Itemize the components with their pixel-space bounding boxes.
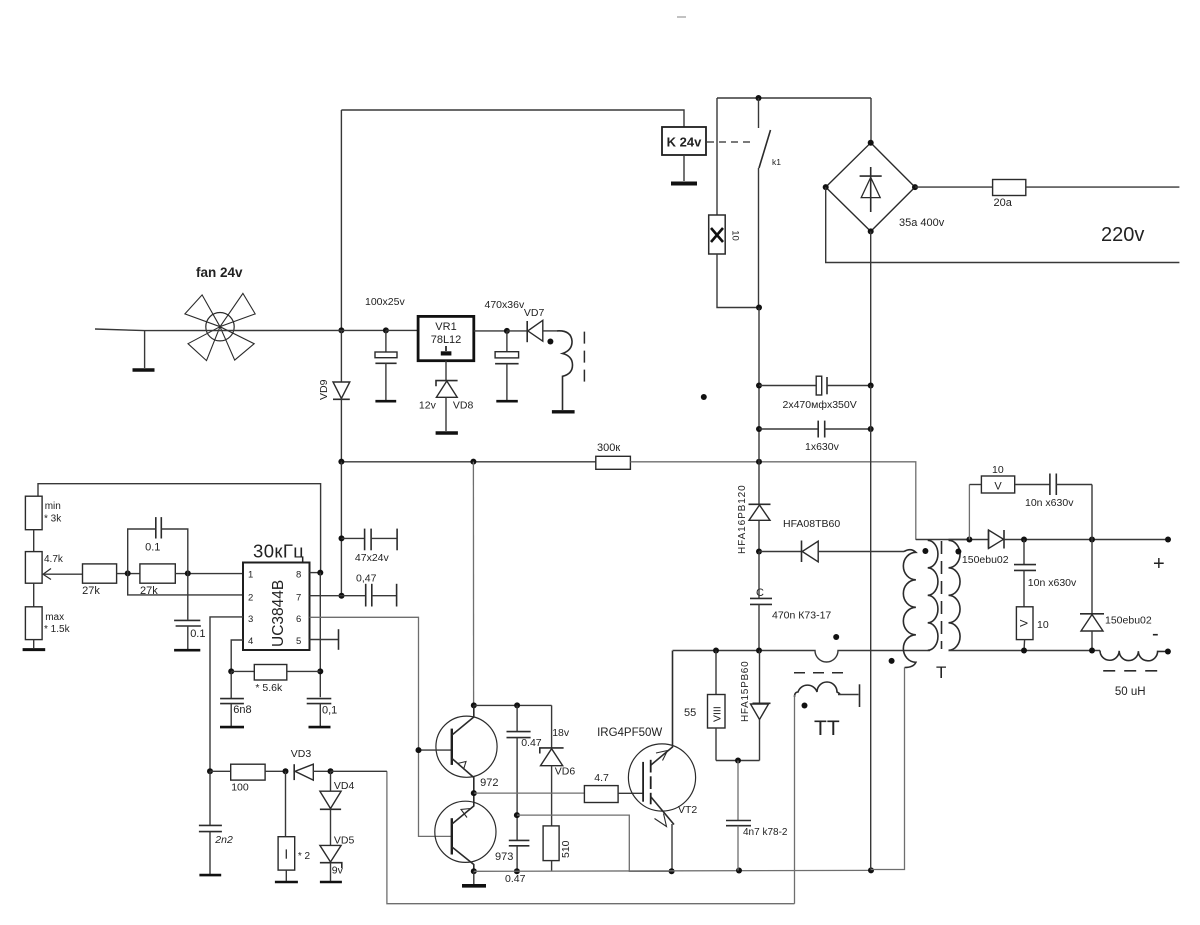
resistor min *3k <box>25 496 62 530</box>
svg-text:max: max <box>45 612 64 623</box>
fan blade upper-left <box>185 295 220 327</box>
wire node line y=650 with TT hop <box>673 651 931 663</box>
node junction (231.2,671.4) <box>228 668 234 674</box>
svg-text:35a 400v: 35a 400v <box>899 217 945 229</box>
potentiometer 4.7k <box>25 552 82 584</box>
svg-text:10: 10 <box>730 230 741 241</box>
zener VD6 <box>540 705 576 826</box>
diode 150ebu02 clamp <box>1080 540 1104 651</box>
node junction (516.9,871.3) <box>514 868 520 874</box>
diode VD9 <box>333 330 350 461</box>
svg-text:27k: 27k <box>82 585 100 597</box>
svg-text:10n x630v: 10n x630v <box>1028 577 1077 589</box>
diode VD3 <box>294 764 330 780</box>
svg-text:5: 5 <box>296 636 301 647</box>
node junction (759,551.5) <box>756 549 762 555</box>
wire fan ground drop <box>144 331 146 368</box>
capacitor 47x24v <box>342 529 398 564</box>
node junction (1024,539.5) <box>1021 537 1027 543</box>
node junction rail x=473 <box>470 459 476 465</box>
wire sense rail y=904 <box>387 771 795 903</box>
node junction (759,98) <box>756 95 762 101</box>
fan blade lower-left <box>188 327 220 361</box>
svg-text:510: 510 <box>560 840 572 858</box>
wire AC return 220v <box>826 187 1180 262</box>
svg-text:HFA16PB120: HFA16PB120 <box>737 484 748 554</box>
node junction (127.7,573.4) <box>125 570 131 576</box>
node junction (418.5,750.1) <box>416 747 422 753</box>
node terminal plus (1168,539.5) <box>1165 537 1171 543</box>
wire vcc drop x=341 <box>340 462 342 596</box>
ground (driver) <box>462 884 486 888</box>
ground (aux winding) <box>552 410 575 413</box>
svg-text:K 24v: K 24v <box>667 135 702 150</box>
wire fan rail left <box>95 329 386 331</box>
svg-text:VT2: VT2 <box>678 804 697 816</box>
svg-text:972: 972 <box>480 777 498 789</box>
wire vcc riser x=341 top <box>340 110 342 330</box>
label 220v <box>1101 224 1144 246</box>
svg-text:0,1: 0,1 <box>322 705 337 717</box>
resistor 100 <box>210 764 286 793</box>
dashed actuation link relay to k1 <box>707 141 754 143</box>
resistor V 10 snubber top <box>969 476 1014 493</box>
svg-text:10n x630v: 10n x630v <box>1025 497 1074 509</box>
svg-text:0.1: 0.1 <box>145 541 160 553</box>
node junction (341.5,595.7) pin7 <box>339 593 345 599</box>
svg-text:9v: 9v <box>332 865 344 877</box>
transformer T winding B inner <box>928 540 938 650</box>
wire x=717 top rail down to thermistor <box>716 98 718 215</box>
svg-text:0.47: 0.47 <box>521 737 542 749</box>
svg-text:UC3844B: UC3844B <box>270 580 287 647</box>
label 150ebu02 lower <box>1105 615 1152 627</box>
node junction rail x=341 <box>338 459 344 465</box>
IC U1 UC3844B <box>243 563 310 651</box>
resistor 27k first <box>82 564 140 597</box>
wire vref top loop <box>38 484 321 573</box>
zener VD8 12v <box>419 361 474 431</box>
svg-text:100: 100 <box>231 782 249 794</box>
svg-text:VD7: VD7 <box>524 307 545 319</box>
capacitor 2n2 <box>199 771 233 875</box>
node junction rail x=759 <box>756 459 762 465</box>
node junction (330.5,771.3) <box>328 768 334 774</box>
wire supply rail y=462 left <box>341 461 595 463</box>
transformer T secondary winding <box>949 540 961 650</box>
svg-text:* 3k: * 3k <box>44 514 62 525</box>
wire y650 left drop x=672 <box>672 650 674 653</box>
inductor 50uH <box>1100 651 1168 661</box>
svg-text:C: C <box>756 587 764 599</box>
svg-text:HFA08TB60: HFA08TB60 <box>783 518 840 530</box>
wire gate lead <box>618 792 643 794</box>
inductor aux winding <box>557 331 573 410</box>
diode HFA16PB120 <box>749 504 771 551</box>
svg-text:220v: 220v <box>1101 224 1144 246</box>
svg-text:47x24v: 47x24v <box>355 552 390 564</box>
wire pin6 route to drivers <box>310 617 452 836</box>
node junction (1024,650.5) <box>1021 648 1027 654</box>
fan blade lower-right <box>220 327 254 360</box>
svg-text:IRG4PF50W: IRG4PF50W <box>597 727 662 739</box>
svg-text:TT: TT <box>814 717 840 740</box>
resistor 300k <box>596 456 631 469</box>
node junction (759,650.5) <box>756 648 762 654</box>
node dot primary phase (925.4,551) <box>922 548 928 554</box>
wire pin3 route <box>210 617 243 771</box>
wire pin5 stub <box>310 629 339 650</box>
node junction (739,870.5) <box>736 868 742 874</box>
svg-text:12v: 12v <box>419 399 437 411</box>
svg-text:10: 10 <box>1037 619 1049 631</box>
wire transformer top link <box>916 539 970 541</box>
svg-text:1x630v: 1x630v <box>805 441 840 453</box>
node junction (473.8,793.1) <box>471 790 477 796</box>
svg-text:VIII: VIII <box>712 706 724 722</box>
svg-text:50 uH: 50 uH <box>1115 686 1146 698</box>
diode HFA15PB60 <box>751 651 771 761</box>
relay K1 coil box K 24v <box>662 127 706 155</box>
capacitor 0,47 pin7 <box>342 573 397 607</box>
node junction (738,760.5) <box>735 758 741 764</box>
svg-text:* 5.6k: * 5.6k <box>255 682 283 694</box>
transformer T winding A outer <box>903 550 916 668</box>
node junction (473.8,871.3) <box>471 868 477 874</box>
wire relay to ground <box>683 155 685 181</box>
svg-text:470n К73-17: 470n К73-17 <box>772 610 831 622</box>
svg-text:18v: 18v <box>552 727 570 739</box>
resistor *5.6k <box>231 665 320 695</box>
wire snubber top right drop <box>1091 485 1093 540</box>
wire bridge DC minus down <box>870 231 872 385</box>
node dot TT phase (836,637) <box>833 634 839 640</box>
label minus <box>1152 623 1159 645</box>
label 50 uH <box>1115 686 1146 698</box>
wire VR1 out <box>474 330 507 332</box>
node junction (516.9,815.1) <box>514 812 520 818</box>
capacitor 0.1 feedback loop <box>128 517 188 573</box>
svg-text:10: 10 <box>992 464 1004 476</box>
wire pin4 route <box>231 640 243 671</box>
svg-text:min: min <box>45 501 61 512</box>
svg-text:VD4: VD4 <box>334 780 355 792</box>
svg-text:VR1: VR1 <box>435 321 456 333</box>
node junction (759,307.5) <box>756 305 762 311</box>
label 18v <box>552 727 570 739</box>
fan blade upper-right <box>220 293 255 326</box>
svg-text:0,47: 0,47 <box>356 573 377 585</box>
capacitor 4n7 k78-2 <box>726 761 788 871</box>
fan M1 hub <box>206 313 234 341</box>
node junction (210,771.3) <box>207 768 213 774</box>
node junction (871,870.4) <box>868 867 874 873</box>
svg-text:973: 973 <box>495 851 513 863</box>
svg-text:2: 2 <box>248 593 253 604</box>
component *2 box <box>275 771 311 882</box>
node junction (517.1,705.4) <box>514 702 520 708</box>
svg-text:VD6: VD6 <box>555 766 576 778</box>
wire pin7 stub <box>310 595 342 597</box>
capacitor 6n8 <box>220 671 252 727</box>
svg-text:fan 24v: fan 24v <box>196 265 243 280</box>
label VD4 <box>334 780 355 792</box>
svg-text:4n7 k78-2: 4n7 k78-2 <box>743 827 788 838</box>
label plus <box>1153 553 1165 575</box>
node dot (550,341.5) <box>547 339 553 345</box>
wire driver top rail <box>474 704 552 706</box>
svg-text:* 1.5k: * 1.5k <box>44 624 71 635</box>
current transformer TT dashed core <box>794 672 849 674</box>
node dot primary bottom phase (891.6,660.9) <box>889 658 895 664</box>
svg-text:30кГц: 30кГц <box>253 541 304 562</box>
resistor V 10 mid <box>1016 607 1048 651</box>
regulator VR1 78L12 <box>418 316 474 360</box>
label TT <box>814 717 840 740</box>
svg-text:470x36v: 470x36v <box>485 299 525 311</box>
label VD5 <box>334 835 355 847</box>
wire secondary top out <box>949 539 989 541</box>
svg-text:4.7k: 4.7k <box>44 554 64 565</box>
label fan 24v <box>196 265 243 280</box>
svg-text:20a: 20a <box>994 197 1013 209</box>
tiny stray mark top <box>677 16 686 18</box>
ground (relay) <box>671 182 697 186</box>
label 10 snubber top <box>992 464 1004 476</box>
node junction (473.8,705.4) <box>471 702 477 708</box>
thermistor X 10 <box>709 215 741 254</box>
winding VIII box <box>708 651 726 761</box>
svg-text:8: 8 <box>296 570 301 581</box>
wire driver supply drop x=473 <box>472 462 474 706</box>
label HFA15PB60 <box>740 661 751 722</box>
svg-text:VD8: VD8 <box>453 399 474 411</box>
wire top rail y=98 <box>717 97 871 99</box>
transformer T core dashes <box>941 541 943 649</box>
node junction (320.3,572.6) <box>317 570 323 576</box>
svg-text:4: 4 <box>248 636 253 647</box>
switch k1 <box>759 98 782 308</box>
wire bridge top riser <box>870 98 872 143</box>
node junction (671.6,871.3) <box>669 868 675 874</box>
diode 150ebu02 output <box>989 530 1169 549</box>
wire pin8 stub <box>310 572 321 574</box>
wire emitter rail y=871 <box>474 869 871 872</box>
node terminal minus (1168,651.5) <box>1165 649 1171 655</box>
svg-text:55: 55 <box>684 707 696 719</box>
svg-text:6n8: 6n8 <box>233 704 251 716</box>
wire VIII to diode bottom <box>716 760 760 762</box>
node junction (1092,650.5) <box>1089 648 1095 654</box>
node junction (1092,539.5) <box>1089 537 1095 543</box>
wire HV minus x=871 down <box>870 386 872 871</box>
wire bridge AC right to fuse <box>915 186 993 188</box>
IGBT VT2 <box>628 651 697 872</box>
wire supply rail y=462 right <box>630 462 915 540</box>
capacitor 100x25v <box>375 330 397 401</box>
svg-text:78L12: 78L12 <box>431 334 462 346</box>
label 300k <box>597 442 620 454</box>
wire to VR1 <box>386 329 418 331</box>
node junction (507,331) <box>504 328 510 334</box>
svg-text:0.1: 0.1 <box>190 628 205 640</box>
svg-text:6: 6 <box>296 614 301 625</box>
zener VD5 9v <box>320 845 344 882</box>
bridge rectifier 35a 400v <box>823 140 945 235</box>
inductor core dashes 50uH <box>1103 670 1159 672</box>
capacitor 2x470mf x350V <box>759 376 874 411</box>
wire from y=110 rail down to relay <box>341 110 684 127</box>
node dot stray (704,397) <box>701 394 707 400</box>
wire snubber riser x=969 <box>968 485 970 540</box>
wire 973 emitter to ground <box>473 871 475 884</box>
label T <box>936 663 946 682</box>
svg-text:+: + <box>1153 553 1165 575</box>
label HFA08TB60 <box>783 518 840 530</box>
capacitor 1x630v <box>759 421 874 453</box>
capacitor 0,1 pin8 <box>307 699 338 728</box>
transformer T primary riser <box>915 539 917 541</box>
svg-text:HFA15PB60: HFA15PB60 <box>740 661 751 722</box>
label C <box>756 587 764 599</box>
transistor Q1 972 <box>419 705 499 793</box>
wire VD3 node to sense corner <box>331 770 387 772</box>
label 470x36v <box>485 299 525 311</box>
label 150ebu02 top <box>962 554 1009 566</box>
diode VD7 <box>507 320 557 342</box>
node junction (187.8,573.4) <box>185 570 191 576</box>
current transformer TT secondary <box>795 682 860 904</box>
svg-text:150ebu02: 150ebu02 <box>962 554 1009 566</box>
wire thermistor bottom to node <box>717 254 759 308</box>
svg-text:7: 7 <box>296 593 301 604</box>
wire min to pot <box>33 530 35 552</box>
wire primary bottom drop <box>871 668 905 870</box>
label 55 <box>684 707 696 719</box>
capacitor 10n x630v top <box>1015 474 1092 510</box>
label HFA16PB120 <box>737 484 748 554</box>
label IRG4PF50W <box>597 727 662 739</box>
label VD3 <box>291 748 312 760</box>
svg-text:1: 1 <box>248 570 253 581</box>
node junction (969.4,539.5) <box>966 537 972 543</box>
svg-text:3: 3 <box>248 614 253 625</box>
svg-text:2х470мфх350V: 2х470мфх350V <box>783 399 857 411</box>
node dot TT secondary phase (804,706) <box>802 703 808 709</box>
capacitor 10n x630v mid <box>1014 540 1077 607</box>
svg-text:100x25v: 100x25v <box>365 296 405 308</box>
ground (fan) <box>133 368 155 372</box>
node junction (716,650.5) <box>713 648 719 654</box>
node junction (341.5,538.4) <box>339 535 345 541</box>
wire pin2 branch <box>128 573 243 595</box>
wire pin8 vertical <box>319 573 321 698</box>
label VD9 <box>318 379 330 400</box>
label 100x25v <box>365 296 405 308</box>
diode VD4 <box>320 771 341 845</box>
node junction (285.5,771.3) <box>283 768 289 774</box>
core dashes aux <box>583 332 585 387</box>
node junction (341.4,330.4) <box>338 327 344 333</box>
resistor 27k second <box>140 564 243 597</box>
svg-text:VD3: VD3 <box>291 748 312 760</box>
svg-text:VD9: VD9 <box>318 379 330 400</box>
label 30kHz <box>253 541 304 562</box>
wire secondary bottom rail <box>949 650 1101 652</box>
resistor 4.7 <box>584 772 618 803</box>
wire HV bus x=759 <box>758 308 760 505</box>
svg-text:150ebu02: 150ebu02 <box>1105 615 1152 627</box>
wire kelvin return <box>517 815 672 871</box>
resistor 510 <box>543 826 572 871</box>
svg-text:300к: 300к <box>597 442 620 454</box>
svg-text:4.7: 4.7 <box>594 772 609 784</box>
fuse 20a <box>993 180 1026 210</box>
svg-text:k1: k1 <box>772 157 781 167</box>
svg-text:V: V <box>994 481 1002 493</box>
svg-text:V: V <box>1019 619 1031 627</box>
capacitor 0.1 to ground <box>174 573 205 650</box>
label VD7 <box>524 307 545 319</box>
svg-text:-: - <box>1152 623 1159 645</box>
node junction (759,385.5) <box>756 383 762 389</box>
wire driver output <box>474 792 585 794</box>
node junction (759,429) <box>756 426 762 432</box>
capacitor C 470n K73-17 <box>750 552 831 651</box>
node junction (386,330) <box>383 327 389 333</box>
diode HFA08TB60 <box>759 541 904 563</box>
capacitor 0.47 upper <box>507 705 542 840</box>
wire fuse to 220v line end <box>1026 186 1180 188</box>
ground (VD8) <box>436 431 458 434</box>
capacitor 0.47 lower <box>505 840 529 885</box>
node junction (320.3,671.4) <box>317 668 323 674</box>
svg-text:* 2: * 2 <box>298 851 311 862</box>
transistor Q2 973 <box>435 793 514 871</box>
svg-text:2n2: 2n2 <box>214 834 233 846</box>
svg-text:0.47: 0.47 <box>505 873 526 885</box>
capacitor 470x36v <box>495 331 518 401</box>
ground (divider) <box>23 648 46 651</box>
resistor max *1.5k <box>25 583 70 648</box>
node dot secondary phase (958.4,551.5) <box>955 549 961 555</box>
svg-text:T: T <box>936 663 946 682</box>
